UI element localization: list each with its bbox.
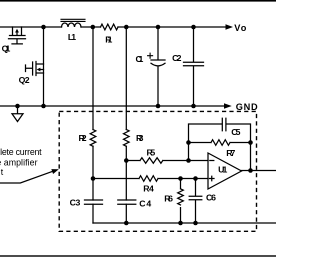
svg-text:C2: C2 — [172, 53, 182, 63]
svg-text:U1: U1 — [218, 164, 227, 174]
svg-text:Complete current: Complete current — [0, 147, 42, 157]
svg-text:circuit: circuit — [0, 167, 4, 177]
svg-text:C1: C1 — [136, 54, 144, 64]
svg-text:GND: GND — [236, 102, 258, 112]
svg-text:Q1: Q1 — [2, 43, 11, 53]
svg-text:sense amplifier: sense amplifier — [0, 157, 38, 167]
svg-text:L1: L1 — [68, 32, 76, 42]
svg-text:Q2: Q2 — [19, 75, 30, 85]
svg-text:R7: R7 — [226, 148, 235, 158]
svg-text:R5: R5 — [147, 148, 156, 158]
svg-text:R4: R4 — [143, 184, 154, 194]
svg-text:C3: C3 — [70, 198, 81, 208]
svg-text:R1: R1 — [105, 34, 112, 44]
svg-text:R6: R6 — [164, 194, 173, 204]
svg-text:R3: R3 — [136, 133, 144, 143]
svg-text:C6: C6 — [206, 192, 216, 202]
svg-text:R2: R2 — [79, 133, 87, 143]
svg-text:Vo: Vo — [234, 23, 247, 33]
svg-text:C5: C5 — [231, 127, 240, 137]
svg-text:C4: C4 — [139, 198, 151, 208]
